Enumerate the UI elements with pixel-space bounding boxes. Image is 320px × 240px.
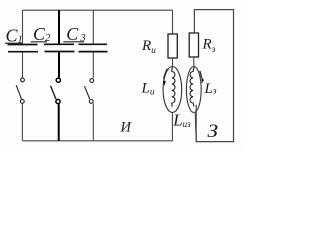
svg-text:Rз: Rз (202, 36, 216, 55)
svg-text:Lиз: Lиз (172, 110, 191, 129)
svg-text:З: З (208, 121, 219, 142)
svg-text:C3: C3 (66, 24, 85, 44)
svg-text:Rи: Rи (141, 38, 156, 56)
svg-text:Lз: Lз (204, 81, 217, 97)
svg-text:C2: C2 (33, 24, 51, 44)
svg-text:Lи: Lи (141, 81, 155, 98)
svg-text:И: И (120, 119, 133, 135)
svg-text:C1: C1 (6, 25, 23, 45)
